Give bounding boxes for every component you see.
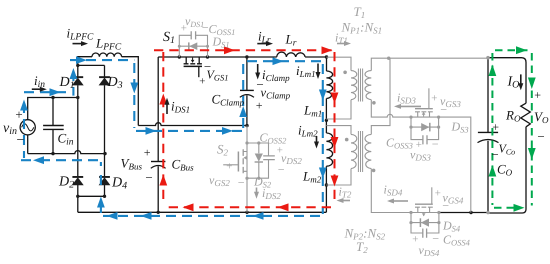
svg-text:−: − <box>237 176 245 190</box>
svg-text:−: − <box>432 232 440 246</box>
svg-text:−: − <box>537 129 546 144</box>
svg-text:D2: D2 <box>58 175 74 191</box>
svg-text:D3: D3 <box>107 75 123 91</box>
svg-text:DS4: DS4 <box>442 219 461 234</box>
svg-text:CClamp: CClamp <box>212 92 245 108</box>
svg-text:+: + <box>534 88 542 102</box>
svg-text:+: + <box>15 107 24 122</box>
svg-text:VO: VO <box>534 109 549 125</box>
svg-text:−: − <box>277 163 285 177</box>
svg-text:D4: D4 <box>111 176 127 192</box>
svg-text:CO: CO <box>497 162 513 178</box>
svg-text:iLPFC: iLPFC <box>67 26 95 43</box>
svg-text:+: + <box>415 139 422 151</box>
svg-text:+: + <box>143 146 151 160</box>
svg-text:IO: IO <box>507 75 520 91</box>
svg-text:Lm1: Lm1 <box>303 103 322 119</box>
svg-text:RO: RO <box>505 108 521 124</box>
svg-text:+: + <box>492 120 500 134</box>
svg-text:−: − <box>145 170 154 185</box>
svg-text:NP1:NS1: NP1:NS1 <box>341 20 383 36</box>
svg-text:iClamp: iClamp <box>262 67 290 83</box>
svg-text:Lr: Lr <box>285 32 297 49</box>
svg-text:+: + <box>226 161 233 173</box>
svg-text:iLr: iLr <box>258 29 271 46</box>
svg-text:COSS4: COSS4 <box>443 233 471 248</box>
svg-text:vClamp: vClamp <box>261 86 291 101</box>
svg-text:NP2:NS2: NP2:NS2 <box>344 226 386 242</box>
svg-text:iLm2: iLm2 <box>298 123 318 139</box>
svg-text:−: − <box>442 199 450 213</box>
svg-text:−: − <box>16 133 25 148</box>
svg-text:S1: S1 <box>163 30 175 46</box>
svg-text:Cin: Cin <box>58 131 74 148</box>
svg-text:−: − <box>440 103 448 117</box>
svg-text:iin: iin <box>34 73 45 90</box>
svg-text:+: + <box>434 188 441 200</box>
svg-text:S2: S2 <box>217 142 229 158</box>
svg-text:COSS3: COSS3 <box>386 136 413 151</box>
svg-text:DS3: DS3 <box>451 120 469 135</box>
svg-text:Lm2: Lm2 <box>302 169 322 185</box>
svg-text:iSD3: iSD3 <box>397 91 416 106</box>
svg-text:iLm1: iLm1 <box>296 63 316 79</box>
svg-text:+: + <box>180 23 187 35</box>
svg-text:+: + <box>199 76 206 88</box>
svg-text:COSS2: COSS2 <box>260 131 288 146</box>
svg-text:iDS2: iDS2 <box>262 186 281 201</box>
svg-text:LPFC: LPFC <box>95 36 122 53</box>
svg-text:+: + <box>255 99 263 113</box>
svg-text:CBus: CBus <box>172 157 195 173</box>
svg-text:vGS2: vGS2 <box>209 173 230 188</box>
svg-text:−: − <box>491 147 500 162</box>
svg-text:iT2: iT2 <box>339 185 352 200</box>
svg-text:−: − <box>431 137 439 151</box>
svg-text:T1: T1 <box>354 4 366 20</box>
svg-text:T2: T2 <box>356 239 368 255</box>
svg-text:iDS1: iDS1 <box>171 99 190 115</box>
svg-text:+: + <box>431 93 438 105</box>
svg-text:iSD4: iSD4 <box>384 183 403 198</box>
svg-text:VGS1: VGS1 <box>207 68 229 83</box>
svg-text:VCo: VCo <box>499 142 516 157</box>
svg-text:VBus: VBus <box>121 156 143 172</box>
